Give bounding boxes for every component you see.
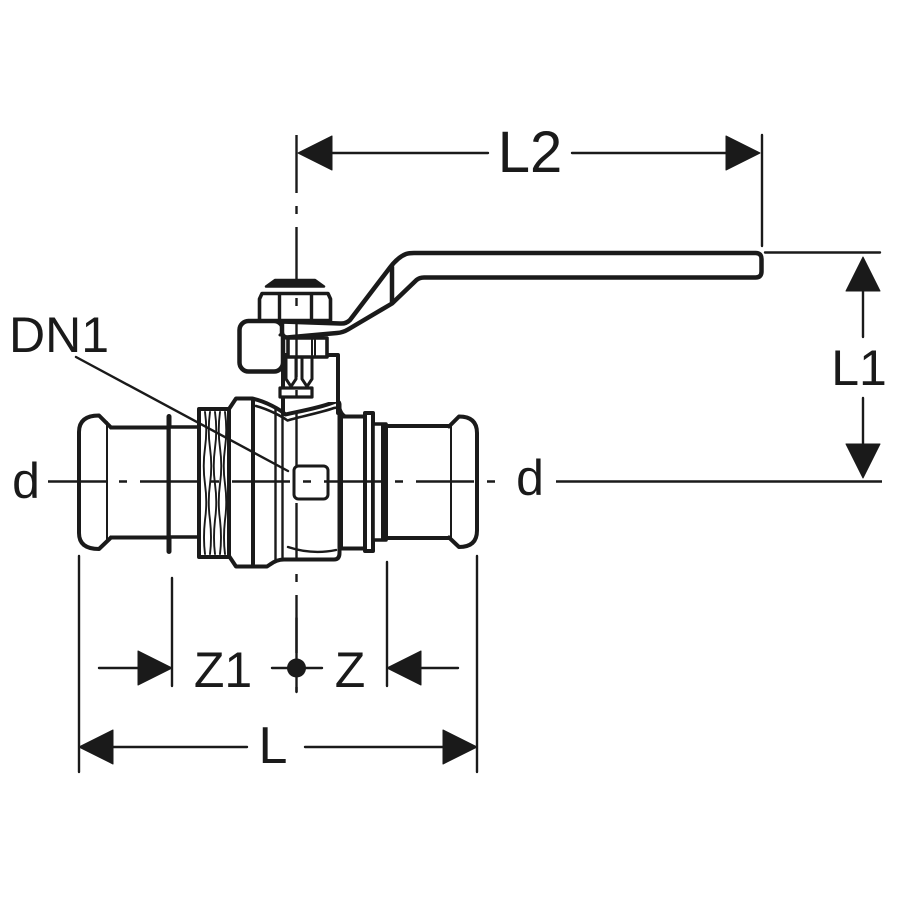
dimension L line <box>112 746 444 748</box>
left bead inner face line <box>106 422 108 542</box>
dimension L1 top arrow <box>846 257 880 291</box>
left socket end face <box>167 417 172 552</box>
svg-text:Z: Z <box>335 642 366 698</box>
dimension L extension right <box>476 556 478 772</box>
body top inner curve <box>256 406 340 421</box>
right neck <box>341 417 365 549</box>
dimension L2 right arrow <box>726 136 760 170</box>
dimension L left arrow <box>79 730 113 764</box>
dimension Z1 arrow <box>138 651 172 685</box>
centre point dot <box>287 659 306 678</box>
dimension Z arrow tail <box>419 667 458 669</box>
svg-text:L1: L1 <box>831 340 887 396</box>
dimension L2 left arrow <box>298 136 332 170</box>
handle bracket <box>240 321 284 372</box>
centre point cross vertical <box>295 618 297 692</box>
stem gland boss <box>283 355 338 402</box>
svg-text:L: L <box>259 717 288 775</box>
right ring <box>365 413 373 551</box>
dimension Z1 arrow tail <box>99 667 140 669</box>
svg-text:Z1: Z1 <box>194 642 252 698</box>
neck top corner <box>339 404 346 417</box>
union groove ring <box>169 427 199 537</box>
DN1 target square <box>294 466 328 499</box>
dimension Z plane extension <box>386 562 388 686</box>
centre point cross horizontal <box>272 667 322 669</box>
right press socket bead <box>449 417 477 548</box>
stem nut hex <box>260 294 331 321</box>
gland fork slot right <box>302 358 312 387</box>
left press socket body <box>111 428 169 538</box>
bracket fold line <box>280 325 290 335</box>
union nut and valve body <box>229 399 340 567</box>
knurl texture <box>204 412 227 554</box>
svg-text:DN1: DN1 <box>9 307 109 363</box>
stem nut inner lines <box>280 295 312 320</box>
right press socket body <box>386 426 449 538</box>
dimension L2 line <box>330 152 728 154</box>
right bead inner face line <box>450 424 452 540</box>
dimension L1 bottom arrow <box>846 444 880 478</box>
dimension L1 extension top <box>765 251 880 253</box>
dimension L right arrow <box>443 730 477 764</box>
dimension Z arrow <box>387 651 421 685</box>
gland fork slot left <box>286 358 296 387</box>
stem upper section <box>288 338 327 357</box>
right socket end face <box>381 425 385 539</box>
handle fold step <box>390 267 395 303</box>
dimension L2 extension line right <box>761 135 763 246</box>
stem nut cap <box>266 280 324 287</box>
stem inner lines <box>312 340 315 355</box>
body thin lines <box>276 408 283 562</box>
horizontal centre line d-d <box>48 480 505 482</box>
dimension L1 line <box>862 290 864 446</box>
right step ring <box>373 424 386 540</box>
gland flange tier <box>280 388 312 397</box>
vertical centre line <box>295 135 297 692</box>
svg-text:d: d <box>12 453 40 509</box>
handle lever <box>282 253 762 338</box>
svg-text:d: d <box>516 450 544 506</box>
dimension L extension left <box>78 556 80 772</box>
union nut inner line <box>251 400 255 564</box>
union knurled ring <box>199 409 229 557</box>
dimension Z1 plane extension <box>171 578 173 686</box>
DN1 leader line <box>76 357 288 471</box>
body bottom cast curve <box>288 547 336 552</box>
svg-text:L2: L2 <box>498 120 563 185</box>
left press socket bead <box>79 416 111 550</box>
